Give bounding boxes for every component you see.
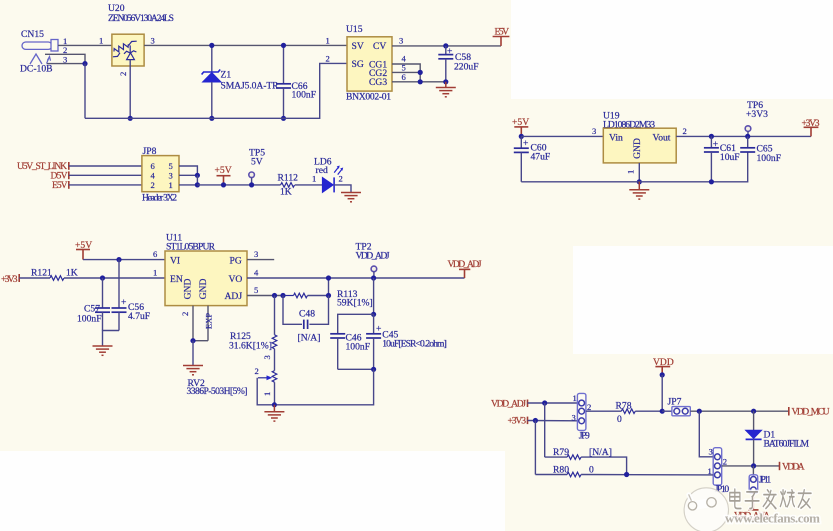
svg-text:ZEN056V130A24LS: ZEN056V130A24LS bbox=[108, 13, 174, 24]
svg-text:1K: 1K bbox=[280, 187, 292, 198]
regulator U19 LD1086D2M33 bbox=[603, 111, 676, 175]
svg-text:3: 3 bbox=[572, 412, 576, 422]
svg-text:ADJ: ADJ bbox=[225, 291, 243, 302]
svg-text:0: 0 bbox=[589, 465, 594, 476]
power port +5V at U19 bbox=[512, 117, 529, 136]
node RV2 bottom junction bbox=[272, 402, 277, 407]
node VDD R78 junction bbox=[660, 409, 665, 414]
test point TP2 VDD_ADJ bbox=[356, 242, 390, 279]
node JP8 pin3 junction bbox=[195, 173, 200, 185]
ground under RV2 bbox=[264, 405, 284, 421]
svg-text:2: 2 bbox=[63, 45, 67, 55]
svg-text:VI: VI bbox=[170, 256, 180, 267]
svg-text:10uF: 10uF bbox=[720, 152, 740, 163]
wire CN15 pin1 to U20 pin1 bbox=[58, 35, 112, 45]
node +5V C60 junction bbox=[519, 134, 524, 139]
svg-text:0: 0 bbox=[617, 414, 622, 425]
svg-text:1: 1 bbox=[169, 180, 173, 190]
svg-text:EXP: EXP bbox=[204, 313, 214, 329]
svg-text:VDD_ADJ: VDD_ADJ bbox=[491, 398, 526, 409]
capacitor C66 100nF bbox=[276, 43, 316, 119]
svg-text:31.6K[1%]: 31.6K[1%] bbox=[229, 341, 272, 352]
svg-text:2: 2 bbox=[587, 402, 591, 412]
svg-text:R112: R112 bbox=[278, 173, 299, 184]
node C61 junction bottom bbox=[709, 179, 714, 184]
net label E5V bbox=[52, 180, 69, 191]
svg-text:E5V: E5V bbox=[52, 180, 68, 191]
node D1 top junction bbox=[751, 409, 756, 414]
svg-text:CV: CV bbox=[373, 41, 386, 52]
power port +5V at U11 bbox=[75, 240, 92, 260]
svg-text:3: 3 bbox=[709, 447, 713, 457]
svg-text:3: 3 bbox=[254, 249, 258, 259]
svg-text:Z1: Z1 bbox=[221, 70, 232, 81]
wire E5V to JP8 pin2 bbox=[69, 184, 142, 186]
node C61 junction top bbox=[709, 134, 714, 139]
power port VDD_ANA below JP11 bbox=[734, 493, 770, 522]
fuse/suppressor U20 ZEN056V130A24LS bbox=[108, 3, 174, 76]
ground under C58 bbox=[436, 82, 456, 97]
node C66 rail junction bbox=[281, 116, 286, 121]
svg-text:2: 2 bbox=[151, 180, 155, 190]
resistor R121 1K bbox=[31, 268, 78, 281]
wire R112 to LD6 bbox=[295, 174, 323, 185]
svg-text:SMAJ5.0A-TR: SMAJ5.0A-TR bbox=[221, 81, 280, 92]
svg-text:5: 5 bbox=[254, 285, 258, 295]
svg-text:JP7: JP7 bbox=[668, 396, 682, 407]
wire +5V to U11 VI bbox=[83, 249, 165, 259]
wire R113 to VO node bbox=[328, 278, 330, 296]
svg-text:EN: EN bbox=[170, 274, 183, 285]
ground under U19 bbox=[629, 182, 649, 199]
svg-text:1: 1 bbox=[573, 393, 577, 403]
node VDD stub dot bbox=[660, 372, 665, 377]
node ADJ junction R125 bbox=[272, 293, 277, 298]
node TP6 junction bbox=[745, 134, 750, 139]
node C45 top junction bbox=[371, 312, 376, 317]
wire C46 C45 bottom link bbox=[338, 368, 374, 370]
node +5V junction bbox=[221, 182, 226, 187]
svg-text:100nF: 100nF bbox=[346, 342, 371, 353]
svg-text:C48: C48 bbox=[299, 309, 315, 320]
diode D1 BAT60JFILM bbox=[746, 411, 810, 466]
node Z1 rail junction bbox=[209, 116, 214, 121]
svg-text:2: 2 bbox=[255, 366, 259, 376]
wire U11 ADJ bbox=[247, 285, 283, 296]
svg-text:3386P-503H[5%]: 3386P-503H[5%] bbox=[187, 386, 248, 397]
svg-text:100nF: 100nF bbox=[757, 153, 782, 164]
svg-text:JP9: JP9 bbox=[579, 431, 590, 442]
power port +5V at JP8 bbox=[215, 165, 232, 185]
header JP9 bbox=[572, 393, 592, 442]
svg-text:2: 2 bbox=[683, 126, 687, 136]
power port VDD bbox=[653, 357, 674, 375]
watermark text www.elecfans.com bbox=[725, 511, 820, 526]
power port E5V bbox=[493, 27, 510, 46]
header JP8 Header 3X2 bbox=[142, 146, 179, 204]
svg-text:220uF: 220uF bbox=[454, 62, 479, 73]
net label VDDA bbox=[780, 462, 805, 473]
svg-text:59K[1%]: 59K[1%] bbox=[337, 297, 373, 308]
LED LD6 red bbox=[314, 157, 343, 193]
regulator U11 ST1L05BPUR bbox=[165, 233, 247, 306]
svg-text:GND: GND bbox=[183, 279, 194, 300]
resistor R79 N/A bbox=[545, 403, 627, 475]
svg-text:R121: R121 bbox=[31, 268, 52, 279]
potentiometer RV2 3386P-503H bbox=[187, 355, 277, 405]
svg-text:2: 2 bbox=[118, 72, 128, 76]
wire JP8 pin5 bbox=[179, 166, 197, 175]
svg-text:SG: SG bbox=[352, 59, 364, 70]
node VI C56 junction bbox=[116, 257, 121, 262]
net label D5V bbox=[51, 171, 69, 182]
svg-text:CG3: CG3 bbox=[369, 77, 387, 88]
wire ground rail CN15 to U15 SG bbox=[85, 53, 347, 118]
svg-text:Vout: Vout bbox=[653, 133, 671, 144]
node C45 bottom junction bbox=[371, 367, 376, 372]
node VDD_ADJ junction bbox=[542, 400, 547, 405]
test point TP5 5V bbox=[249, 148, 265, 185]
svg-text:100nF: 100nF bbox=[292, 90, 317, 101]
wire U19 ground rail bbox=[521, 152, 747, 182]
wire U11 PG stub bbox=[247, 249, 274, 259]
svg-text:3: 3 bbox=[169, 170, 173, 180]
power port VDD_ADJ right bbox=[448, 259, 482, 278]
wire LD6 to ground bbox=[334, 185, 351, 193]
svg-text:VDD_ADJ: VDD_ADJ bbox=[448, 259, 482, 270]
test point TP6 +3V3 bbox=[745, 100, 768, 136]
capacitor C57 100nF bbox=[77, 278, 110, 331]
svg-text:1: 1 bbox=[626, 170, 636, 174]
svg-text:+5V: +5V bbox=[215, 165, 232, 176]
jumper JP7 bbox=[662, 396, 690, 416]
ground under C57 bbox=[93, 346, 113, 355]
filter U15 BNX002-01 bbox=[346, 24, 392, 103]
capacitor C65 100nF bbox=[740, 136, 781, 164]
node CN15 pin3 junction bbox=[82, 61, 87, 66]
node JP10 branch junction bbox=[697, 409, 702, 414]
svg-text:2: 2 bbox=[723, 456, 727, 466]
wire VDD down to R78 JP7 bbox=[661, 375, 663, 411]
svg-text:47uF: 47uF bbox=[531, 152, 551, 163]
svg-text:VDD_MCU: VDD_MCU bbox=[792, 407, 830, 418]
node +3V3 junction bbox=[533, 418, 538, 423]
svg-text:VDDA: VDDA bbox=[782, 462, 805, 473]
resistor R78 0 bbox=[586, 400, 662, 425]
node R79 R80 junction bbox=[624, 472, 629, 477]
wire D5V to JP8 pin4 bbox=[69, 174, 142, 176]
wire C45 node to RV2 row bbox=[274, 369, 373, 405]
capacitor C61 10uF bbox=[704, 136, 740, 181]
node U20 pin2 rail junction bbox=[128, 116, 133, 121]
wire +3V3 to JP9 pin3 bbox=[528, 420, 579, 422]
resistor R80 0 bbox=[535, 421, 713, 477]
node C58 bottom junction bbox=[443, 79, 448, 84]
resistor R112 1K bbox=[278, 173, 299, 198]
svg-text:+: + bbox=[121, 297, 126, 308]
svg-text:4: 4 bbox=[151, 170, 156, 180]
wire U20 pin3 to U15 pin1 bbox=[144, 35, 347, 45]
svg-text:100nF: 100nF bbox=[77, 314, 102, 325]
node JP8 pin1 junction bbox=[195, 182, 200, 187]
svg-text:[N/A]: [N/A] bbox=[589, 447, 612, 458]
node TP2 junction bbox=[371, 275, 376, 280]
svg-text:5V: 5V bbox=[251, 157, 263, 168]
svg-text:6: 6 bbox=[153, 249, 158, 259]
header JP10 bbox=[708, 447, 730, 495]
wire JP10 pin2 to VDDA bbox=[722, 465, 780, 467]
svg-text:R79: R79 bbox=[553, 447, 569, 458]
connector CN15 DC-10B bbox=[20, 29, 67, 75]
capacitor C56 4.7uF bbox=[112, 260, 151, 331]
svg-text:Vin: Vin bbox=[609, 133, 623, 144]
ground under U11 bbox=[183, 366, 203, 375]
svg-text:2: 2 bbox=[326, 53, 330, 63]
net label +3V3 bottom bbox=[508, 416, 528, 427]
node R113 C48 right junction bbox=[326, 293, 331, 298]
svg-text:1: 1 bbox=[99, 35, 103, 45]
header JP11 bbox=[749, 466, 771, 493]
svg-text:+3V3: +3V3 bbox=[1, 274, 18, 285]
ground at LD6 bbox=[341, 193, 361, 202]
wire JP7 to VDD_MCU bbox=[690, 410, 789, 412]
wire CN15 pin2 bbox=[45, 54, 85, 63]
svg-text:www.elecfans.com: www.elecfans.com bbox=[725, 511, 820, 526]
node U19 GND junction bbox=[637, 179, 642, 184]
wire U15 CV pin3 to C58 and E5V bbox=[392, 35, 501, 46]
wire TP2 node down bbox=[373, 278, 375, 314]
watermark text dianzifashaoyou bbox=[730, 489, 811, 508]
svg-text:10uF[ESR<0.2ohm]: 10uF[ESR<0.2ohm] bbox=[382, 339, 447, 350]
svg-text:1: 1 bbox=[326, 35, 330, 45]
node CG2 junction bbox=[418, 70, 423, 75]
wire U11 GND EXP pins bbox=[180, 306, 214, 341]
svg-text:SV: SV bbox=[352, 41, 364, 52]
wire +5V to U19 Vin bbox=[521, 126, 603, 137]
capacitor C60 47uF bbox=[514, 136, 550, 181]
wire branch down to JP10 pin3 bbox=[699, 411, 713, 457]
svg-text:4: 4 bbox=[254, 268, 259, 278]
svg-text:+3V3: +3V3 bbox=[746, 109, 768, 120]
node TP5 junction bbox=[249, 182, 254, 187]
power port +3V3 right bbox=[802, 118, 820, 136]
wire U20 pin2 to ground rail bbox=[129, 59, 131, 118]
node CG3 junction bbox=[418, 79, 423, 84]
wire U11 VO to VDD_ADJ bbox=[247, 268, 465, 278]
watermark logo circle bbox=[684, 488, 728, 531]
svg-text:4.7uF: 4.7uF bbox=[128, 311, 150, 322]
svg-text:VO: VO bbox=[229, 274, 243, 285]
net label VDD_MCU bbox=[789, 407, 830, 418]
wire R121 to U11 EN bbox=[64, 268, 165, 278]
svg-text:+3V3: +3V3 bbox=[508, 416, 527, 427]
net label VDD_ADJ bottom bbox=[491, 398, 528, 409]
svg-text:PG: PG bbox=[230, 256, 242, 267]
node VDDA D1 junction bbox=[751, 463, 756, 468]
svg-text:1K: 1K bbox=[66, 268, 78, 279]
wire C57 C56 ground link bbox=[103, 331, 120, 347]
wire CN15 pin3 bbox=[47, 63, 85, 65]
capacitor C46 100nF bbox=[330, 314, 373, 369]
svg-text:BAT60JFILM: BAT60JFILM bbox=[764, 438, 810, 449]
svg-text:Header 3X2: Header 3X2 bbox=[142, 193, 177, 204]
svg-text:DC-10B: DC-10B bbox=[20, 64, 53, 75]
svg-text:2: 2 bbox=[180, 312, 190, 316]
TVS diode Z1 SMAJ5.0A-TR bbox=[202, 43, 279, 119]
capacitor C58 220uF bbox=[438, 43, 478, 82]
svg-text:VDD_ADJ: VDD_ADJ bbox=[356, 250, 390, 261]
wire JP8 pin1 bbox=[179, 184, 197, 186]
capacitor C48 N/A bbox=[283, 296, 329, 344]
wire JP8 pin3 bbox=[179, 174, 197, 176]
net label U5V_ST_LINK bbox=[17, 161, 69, 172]
svg-text:JP11: JP11 bbox=[759, 474, 772, 485]
node EN C57 junction bbox=[100, 275, 105, 280]
svg-text:3: 3 bbox=[262, 355, 272, 359]
wire VDD_ADJ to JP9 pin1 bbox=[528, 402, 579, 404]
wire U19 GND pin bbox=[638, 163, 640, 182]
svg-text:1: 1 bbox=[153, 268, 157, 278]
node VO R113 junction bbox=[326, 275, 331, 280]
capacitor C45 10uF bbox=[366, 314, 447, 369]
resistor R113 59K bbox=[283, 289, 373, 309]
svg-text:E5V: E5V bbox=[495, 27, 510, 38]
svg-text:red: red bbox=[316, 165, 328, 176]
svg-text:1: 1 bbox=[262, 392, 272, 396]
svg-text:[N/A]: [N/A] bbox=[298, 333, 321, 344]
wire U5V_ST_LINK to JP8 pin6 bbox=[69, 165, 142, 167]
svg-text:+3V3: +3V3 bbox=[802, 118, 820, 129]
svg-text:3: 3 bbox=[399, 35, 403, 45]
svg-text:3: 3 bbox=[592, 126, 596, 136]
svg-text:U15: U15 bbox=[346, 24, 363, 35]
wire +3V3 to R121 bbox=[19, 277, 50, 279]
svg-text:R80: R80 bbox=[553, 465, 569, 476]
svg-text:GND: GND bbox=[198, 279, 209, 300]
wire CN15 pin3 to ground rail bbox=[84, 64, 86, 119]
wire U19 Vout to +3V3 bbox=[676, 126, 811, 137]
resistor R125 31.6K bbox=[229, 296, 277, 371]
wire U11 GND to ground bbox=[192, 341, 194, 366]
wire U15 CG pins bbox=[392, 54, 446, 82]
svg-text:6: 6 bbox=[402, 72, 407, 82]
node U11 GND junction bbox=[190, 338, 195, 343]
wire JP8 to R112 bbox=[197, 184, 280, 186]
net label +3V3 at R121 bbox=[1, 274, 19, 285]
svg-text:GND: GND bbox=[632, 138, 643, 159]
svg-text:2: 2 bbox=[339, 174, 343, 184]
node ADJ junction C48 bbox=[280, 293, 285, 298]
svg-text:BNX002-01: BNX002-01 bbox=[346, 92, 391, 103]
svg-text:3: 3 bbox=[151, 35, 155, 45]
svg-text:CN15: CN15 bbox=[21, 29, 44, 40]
svg-text:R78: R78 bbox=[616, 400, 632, 411]
